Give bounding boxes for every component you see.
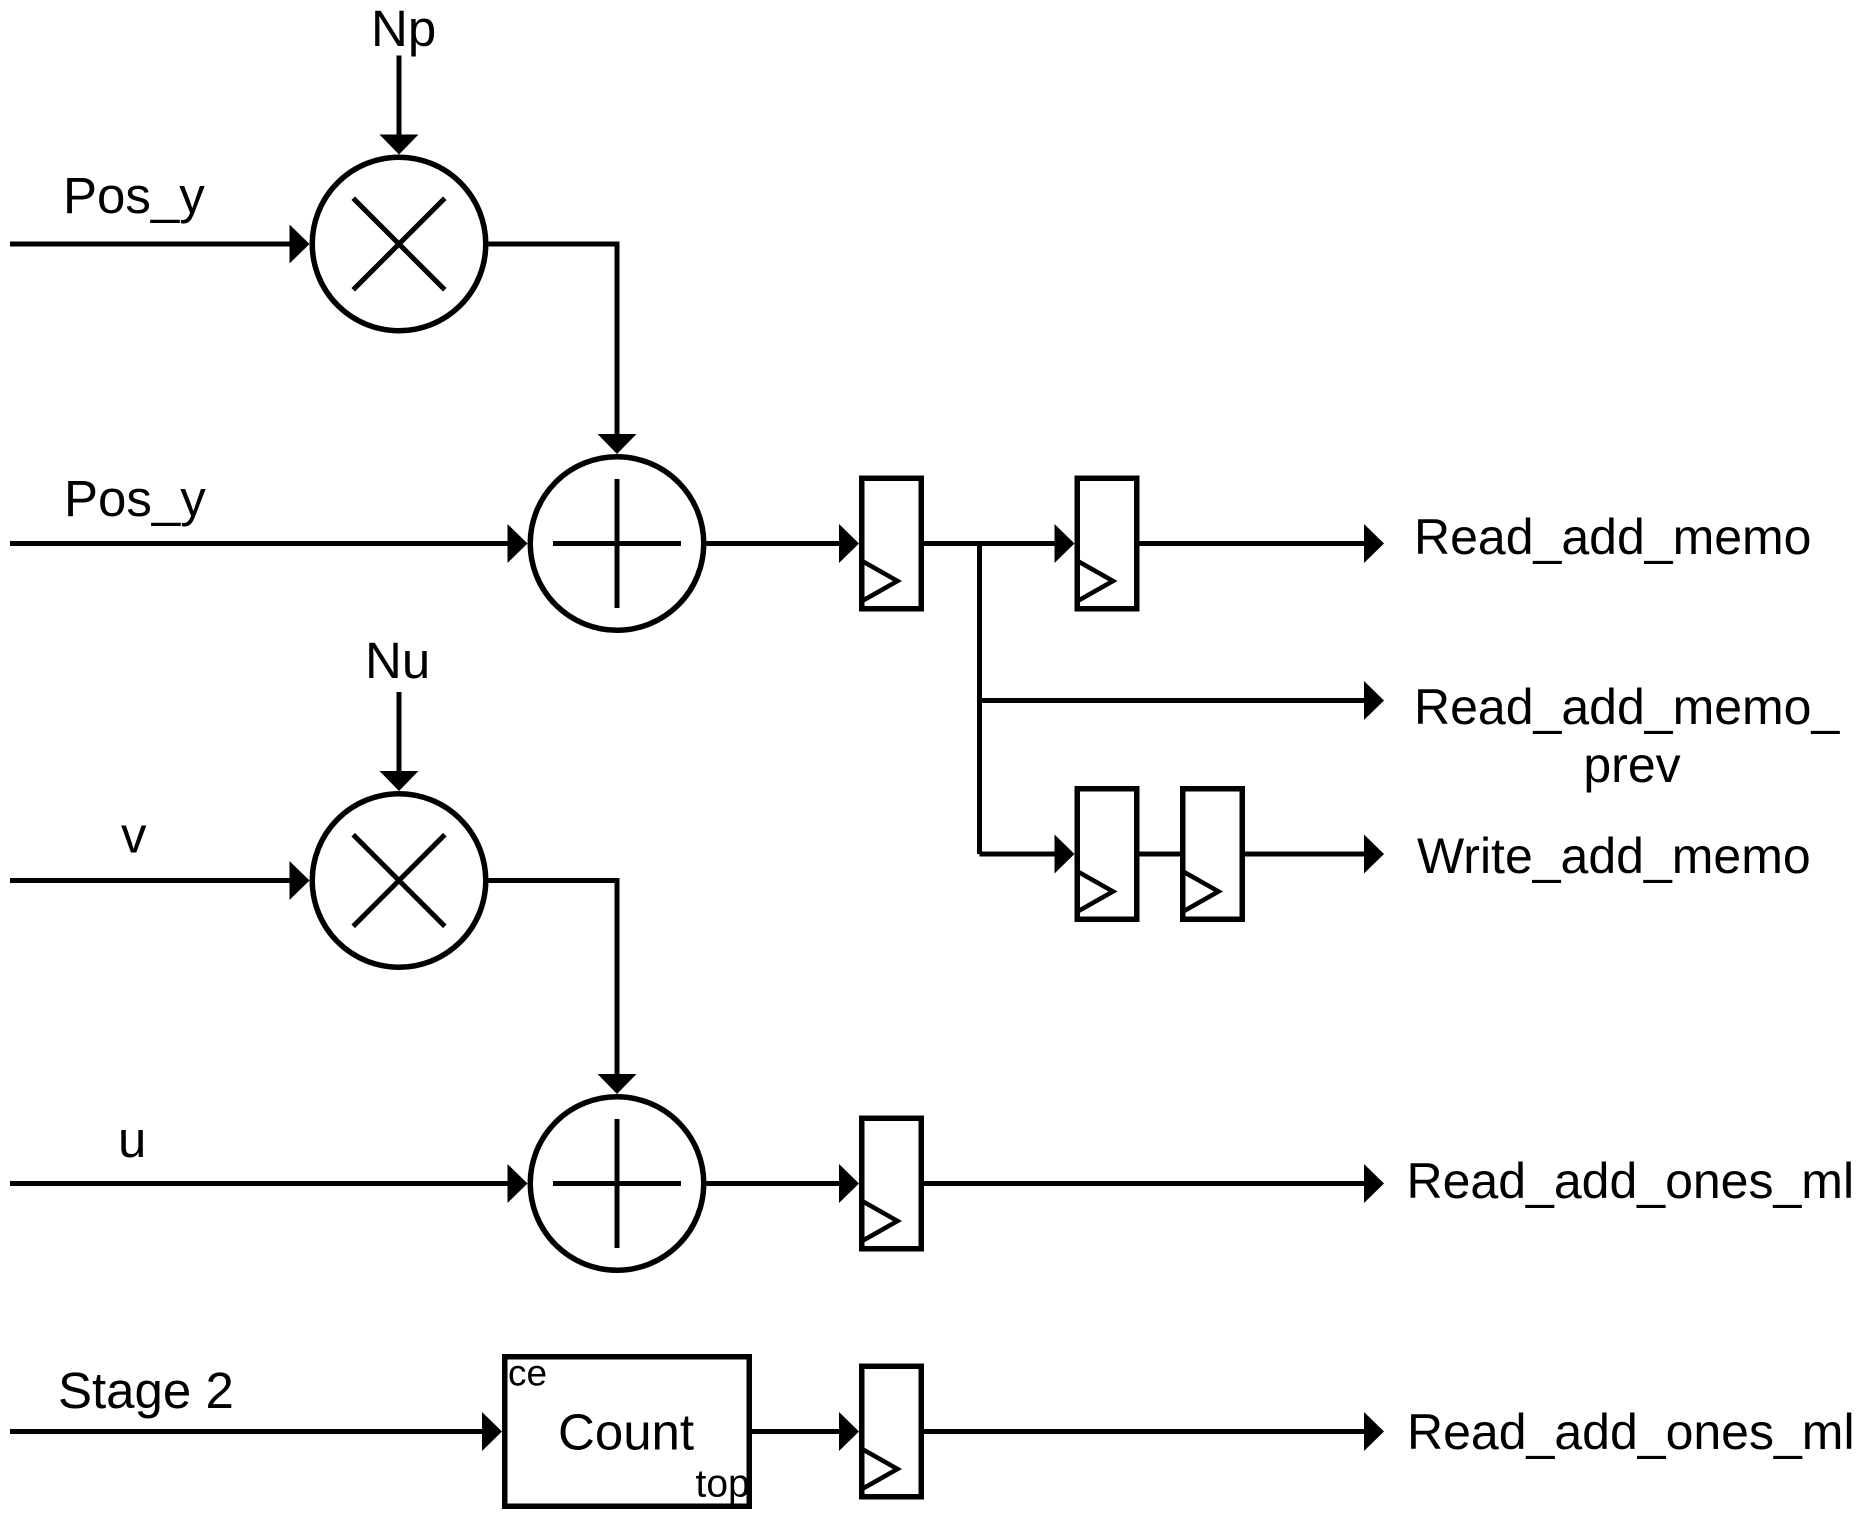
svg-text:Read_add_memo_: Read_add_memo_ <box>1414 679 1840 735</box>
multiplier M2 <box>312 794 486 968</box>
wire branch to register FF3 <box>980 835 1075 874</box>
svg-text:top: top <box>696 1463 750 1506</box>
wire FF1 to register FF2 <box>924 524 1075 563</box>
svg-text:Pos_y: Pos_y <box>63 167 205 224</box>
label Read_add_memo <box>1414 509 1812 565</box>
label Pos_y (row 2) <box>64 470 206 527</box>
wire FF4 to Write_add_memo output <box>1245 835 1384 874</box>
wire Count to register FF6 <box>752 1412 859 1451</box>
wire Np input (vertical into multiplier M1) <box>380 56 419 155</box>
svg-text:Pos_y: Pos_y <box>64 470 206 527</box>
register FF3 <box>1077 789 1137 920</box>
register FF5 <box>862 1118 922 1249</box>
wire Pos_y input to adder A1 <box>10 524 528 563</box>
svg-text:u: u <box>118 1111 146 1168</box>
wire FF5 to Read_add_ones_ml output <box>924 1164 1384 1203</box>
svg-text:v: v <box>121 807 147 864</box>
label Read_add_memo_prev <box>1414 679 1840 793</box>
svg-text:Count: Count <box>558 1403 694 1460</box>
svg-text:Stage 2: Stage 2 <box>58 1362 234 1419</box>
wire A1 to register FF1 <box>707 524 860 563</box>
wire v input to multiplier M2 <box>10 861 310 900</box>
register FF1 <box>862 478 922 609</box>
wire FF3 to register FF4 <box>1140 852 1183 857</box>
multiplier M1 <box>312 157 486 331</box>
wire M1 output to adder A1 <box>489 244 637 454</box>
svg-text:prev: prev <box>1583 737 1680 793</box>
wire u input to adder A2 <box>10 1164 528 1203</box>
label Write_add_memo <box>1417 828 1811 884</box>
label Nu <box>365 632 430 689</box>
adder A1 <box>530 457 704 631</box>
svg-text:Write_add_memo: Write_add_memo <box>1417 828 1811 884</box>
label v <box>121 807 147 864</box>
register FF2 <box>1077 478 1137 609</box>
label Pos_y (row 1) <box>63 167 205 224</box>
counter U1 Count <box>505 1353 750 1507</box>
register FF6 <box>862 1366 922 1497</box>
wire A2 to register FF5 <box>707 1164 860 1203</box>
wire branch to Read_add_memo_prev output <box>980 681 1385 720</box>
wire FF6 to Read_add_ones_ml output <box>924 1412 1384 1451</box>
node J1 (junction drop from FF1 output) <box>977 544 982 855</box>
label Stage 2 <box>58 1362 234 1419</box>
svg-text:ce: ce <box>508 1353 547 1394</box>
wire Pos_y input to multiplier M1 <box>10 225 310 264</box>
label Np <box>371 0 436 57</box>
wire Nu input (vertical into multiplier M2) <box>380 692 419 791</box>
svg-text:Read_add_memo: Read_add_memo <box>1414 509 1812 565</box>
svg-text:Read_add_ones_ml: Read_add_ones_ml <box>1407 1404 1855 1460</box>
adder A2 <box>530 1097 704 1271</box>
wire M2 output to adder A2 <box>489 881 637 1095</box>
svg-text:Np: Np <box>371 0 436 57</box>
label u <box>118 1111 146 1168</box>
label Read_add_ones_ml (row 6) <box>1407 1153 1855 1209</box>
wire FF2 to Read_add_memo output <box>1140 524 1385 563</box>
svg-text:Nu: Nu <box>365 632 430 689</box>
wire Stage 2 input to counter <box>10 1412 502 1451</box>
label Read_add_ones_ml (row 7) <box>1407 1404 1855 1460</box>
svg-text:Read_add_ones_ml: Read_add_ones_ml <box>1407 1153 1855 1209</box>
register FF4 <box>1183 789 1243 920</box>
